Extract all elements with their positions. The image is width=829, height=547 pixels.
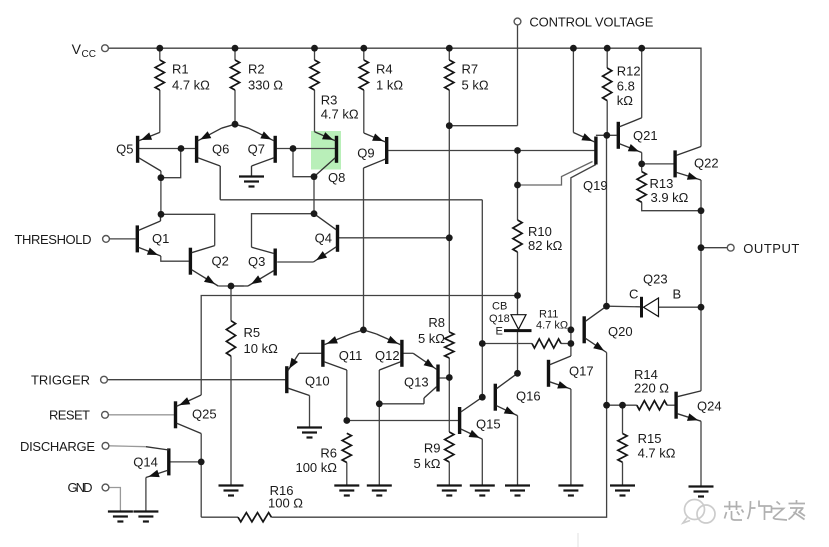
- ground under R6: [334, 486, 359, 496]
- wire Q14 base to Q25 emitter node: [170, 461, 201, 463]
- terminal TRIGGER: [31, 373, 107, 388]
- svg-text:R8: R8: [428, 315, 445, 330]
- wire Q6 collector column down R11/Q15 node: [481, 200, 483, 397]
- transistor Q19: [573, 133, 607, 194]
- wire Q1 node to Q2 collector: [161, 214, 215, 245]
- wire Q4 node to Q3 collector: [252, 214, 315, 248]
- terminal VCC: [72, 41, 109, 60]
- svg-text:R5: R5: [244, 325, 261, 340]
- terminal RESET: [49, 408, 108, 423]
- wire Q14 emitter to ground: [145, 478, 147, 512]
- wire Q10 collector to ground: [309, 396, 311, 428]
- wire R6 node row to Q15 base: [347, 420, 458, 422]
- wire R1 top column: [159, 48, 161, 60]
- ground under Q24: [689, 487, 714, 497]
- svg-text:5 kΩ: 5 kΩ: [413, 456, 440, 471]
- svg-text:220 Ω: 220 Ω: [634, 381, 669, 396]
- svg-text:4.7 kΩ: 4.7 kΩ: [321, 107, 359, 122]
- resistor R7: [445, 60, 489, 93]
- terminal CONTROL VOLTAGE: [514, 15, 654, 30]
- ground at GND pin: [108, 512, 133, 522]
- wire R4 top column: [363, 48, 365, 60]
- wire Q20 collector node to Q23 cathode: [607, 305, 641, 308]
- wire Q24 emitter to ground: [700, 421, 702, 486]
- svg-text:Q19: Q19: [583, 178, 608, 193]
- transistor Q14: [133, 447, 169, 478]
- svg-text:Q12: Q12: [375, 348, 400, 363]
- wire R5 column top: [230, 286, 232, 321]
- svg-text:Q13: Q13: [404, 375, 429, 390]
- wire Q23 anode to output column: [659, 306, 702, 308]
- terminal DISCHARGE: [20, 439, 109, 454]
- wire R14 to Q24 base: [667, 404, 675, 406]
- resistor R12: [603, 64, 641, 109]
- wire control voltage to R7 junction: [449, 125, 517, 127]
- svg-text:Q15: Q15: [476, 417, 501, 432]
- transistor Q24: [676, 391, 721, 421]
- transistor Q2: [190, 246, 228, 286]
- svg-text:Q16: Q16: [516, 389, 541, 404]
- wire R8 to Q13 base node: [448, 358, 450, 378]
- svg-text:B: B: [673, 287, 682, 302]
- svg-text:Q17: Q17: [569, 364, 594, 379]
- transistor Q5: [116, 132, 161, 171]
- wire R7 top column: [448, 48, 450, 60]
- svg-text:OUTPUT: OUTPUT: [743, 241, 799, 256]
- transistor Q15: [460, 397, 501, 439]
- transistor Q7: [235, 124, 275, 176]
- svg-text:Q21: Q21: [633, 128, 658, 143]
- wire R13 bottom to output column: [642, 202, 701, 210]
- wire Q1 emitter to Q2 base: [161, 256, 189, 261]
- wire R12 bottom to Q21 base: [606, 101, 608, 136]
- wire R2 bottom to Q6/Q7 apex: [234, 90, 236, 124]
- ground under Q16: [505, 486, 530, 496]
- watermark logo: [683, 500, 715, 524]
- wire Q25 emitter column: [200, 434, 202, 518]
- wire Q12/Q13 collectors to ground: [379, 404, 424, 486]
- wire discharge stub: [109, 445, 146, 448]
- wire R7 bottom column to R8: [448, 90, 450, 332]
- svg-text:82 kΩ: 82 kΩ: [528, 238, 563, 253]
- transistor Q21: [618, 118, 657, 153]
- wire Q19 emitter column: [572, 48, 574, 132]
- transistor Q1: [137, 214, 169, 256]
- svg-text:Q14: Q14: [133, 455, 158, 470]
- svg-text:4.7 kΩ: 4.7 kΩ: [536, 320, 568, 332]
- wire R4 bottom to Q9 emitter: [363, 90, 365, 133]
- svg-text:Q9: Q9: [357, 146, 374, 161]
- ground under Q15: [470, 486, 495, 496]
- wire Q5 collector to Q1 node: [160, 171, 162, 214]
- svg-text:E: E: [496, 326, 503, 338]
- diode Q23: [629, 272, 681, 318]
- wire R6 to ground: [346, 463, 348, 486]
- wire Q10 emitter to Q11 base: [299, 352, 321, 354]
- wire Vcc rail: [108, 48, 701, 146]
- wire Q17 emitter to ground: [570, 389, 572, 486]
- transistor Q9: [357, 133, 386, 168]
- wire Q3 base to Q4 emitter: [277, 261, 313, 263]
- resistor R16: [238, 483, 303, 522]
- resistor R9: [413, 432, 453, 471]
- svg-text:R4: R4: [376, 62, 393, 77]
- svg-text:C: C: [629, 287, 638, 302]
- svg-text:Q18: Q18: [489, 313, 510, 325]
- svg-text:4.7 kΩ: 4.7 kΩ: [172, 78, 210, 93]
- wire Q8 diode connection: [293, 149, 314, 177]
- highlight box on Q8: [311, 131, 341, 170]
- svg-text:Q6: Q6: [212, 142, 229, 157]
- transistor Q22: [675, 147, 718, 181]
- resistor R3: [310, 60, 359, 122]
- resistor R6: [295, 433, 351, 475]
- wire Q21 node to Q22 base: [642, 163, 674, 165]
- transistor Q13: [404, 353, 449, 404]
- ground under Q17: [558, 486, 583, 496]
- resistor R10: [513, 220, 563, 253]
- wire output stub: [701, 247, 727, 249]
- svg-text:Q23: Q23: [643, 272, 668, 287]
- svg-text:GND: GND: [68, 480, 93, 495]
- svg-text:Q5: Q5: [116, 142, 133, 157]
- ground under Q14: [133, 512, 158, 522]
- transistor Q4: [313, 214, 337, 262]
- wire Q5 base junction to Q6: [139, 148, 195, 150]
- wire Q5 diode connection: [161, 149, 181, 178]
- svg-text:R9: R9: [424, 441, 441, 456]
- svg-text:5 kΩ: 5 kΩ: [418, 331, 445, 346]
- wire control-voltage column lower: [517, 151, 519, 221]
- svg-text:THRESHOLD: THRESHOLD: [15, 232, 92, 247]
- wire Q2/Q3 emitters to R5: [218, 285, 244, 287]
- svg-text:6.8: 6.8: [617, 79, 635, 94]
- wire gnd stub: [109, 488, 121, 512]
- wire Q12 base to Q13 emitter: [403, 352, 413, 354]
- wire Q12 collector: [378, 370, 380, 404]
- svg-text:R1: R1: [172, 62, 189, 77]
- svg-text:R12: R12: [617, 64, 641, 79]
- wire Q20 collector column to Q21 base node: [606, 135, 608, 306]
- wire R13 top: [641, 164, 643, 172]
- wire Q9 base / control node / Q19 base row: [388, 150, 594, 152]
- svg-text:Q10: Q10: [305, 374, 330, 389]
- svg-text:100 Ω: 100 Ω: [268, 496, 303, 511]
- transistor Q16: [495, 373, 540, 415]
- svg-text:R10: R10: [528, 224, 552, 239]
- wire Q17 collector to node: [570, 344, 572, 357]
- svg-text:Q7: Q7: [248, 142, 265, 157]
- svg-text:kΩ: kΩ: [617, 93, 634, 108]
- wire Q15 emitter to ground: [481, 439, 483, 485]
- wire R1 bottom to Q5 emitter: [159, 90, 161, 132]
- svg-text:TRIGGER: TRIGGER: [31, 373, 90, 388]
- svg-text:R3: R3: [321, 93, 338, 108]
- svg-text:R7: R7: [462, 62, 479, 77]
- wire reset stub: [108, 414, 174, 416]
- wire R15 top: [622, 405, 624, 433]
- resistor R11: [532, 309, 568, 349]
- wire Q20 emitter column: [606, 353, 608, 406]
- wire R12 top column: [606, 48, 608, 68]
- wire Q6 collector row: [220, 199, 482, 201]
- svg-text:1 kΩ: 1 kΩ: [376, 78, 403, 93]
- wire Q20 base node to R11 node: [570, 330, 572, 344]
- resistor R15: [618, 431, 676, 462]
- terminal THRESHOLD: [15, 232, 136, 247]
- wire Q11 collector to R6 node: [346, 370, 348, 421]
- resistor R2: [230, 60, 283, 93]
- wire R3 bottom to Q8 emitter: [314, 90, 316, 132]
- terminal GND: [68, 480, 109, 495]
- transistor Q10: [287, 353, 330, 395]
- wire R10 to Q18 anode: [517, 252, 519, 315]
- svg-text:Q24: Q24: [697, 399, 722, 414]
- svg-text:R2: R2: [248, 62, 265, 77]
- resistor R14: [634, 367, 669, 410]
- wire R9 to ground: [448, 462, 450, 486]
- wire Q13 base node to R9: [448, 378, 450, 433]
- wire Q21 emitter to node: [641, 153, 643, 164]
- wire trigger row: [107, 379, 285, 381]
- svg-text:DISCHARGE: DISCHARGE: [20, 439, 95, 454]
- ground under R15: [610, 486, 635, 496]
- svg-text:Q20: Q20: [608, 324, 633, 339]
- transistor Q20: [584, 306, 632, 352]
- wire output column Q22 emitter to Q24 collector: [700, 180, 702, 391]
- ground under R9: [437, 486, 462, 496]
- svg-text:Q25: Q25: [192, 407, 217, 422]
- svg-text:4.7 kΩ: 4.7 kΩ: [638, 446, 676, 461]
- page artifact line: [577, 533, 579, 547]
- svg-text:3.9 kΩ: 3.9 kΩ: [651, 190, 689, 205]
- resistor R5: [226, 321, 278, 356]
- transistor Q17: [549, 356, 594, 389]
- transistor Q8: [314, 132, 345, 185]
- svg-text:Q4: Q4: [315, 231, 332, 246]
- wire R11 right to node: [561, 343, 571, 345]
- wire R16 to Q20 emitter column: [271, 405, 606, 517]
- transistor Q12: [363, 330, 402, 370]
- wire bottom row to R16: [201, 516, 238, 518]
- wire Q19 second collector lead to Q20 base: [571, 165, 596, 330]
- resistor R8: [418, 315, 454, 358]
- svg-text:RESET: RESET: [49, 408, 90, 423]
- wire Q16 emitter to ground: [517, 416, 519, 486]
- transistor Q3: [231, 247, 275, 286]
- svg-text:CB: CB: [492, 301, 507, 313]
- svg-text:330 Ω: 330 Ω: [248, 78, 283, 93]
- wire R5 to ground: [230, 356, 232, 485]
- svg-text:10 kΩ: 10 kΩ: [244, 341, 279, 356]
- svg-text:CC: CC: [82, 49, 96, 60]
- svg-text:R15: R15: [638, 431, 662, 446]
- svg-text:Q22: Q22: [694, 156, 719, 171]
- wire control-voltage column upper: [517, 25, 519, 126]
- svg-text:R6: R6: [320, 446, 337, 461]
- wire R15 to ground: [622, 462, 624, 485]
- ground under Q10: [297, 428, 322, 438]
- svg-text:Q2: Q2: [212, 254, 229, 269]
- terminal OUTPUT: [727, 241, 799, 256]
- ground under Q12/Q13: [367, 486, 392, 496]
- resistor R13: [637, 172, 689, 205]
- transistor Q25: [176, 395, 217, 434]
- ground under Q7: [239, 177, 264, 187]
- svg-text:V: V: [72, 41, 82, 57]
- wire reset row from Q25 collector: [201, 296, 517, 396]
- wire Q21 collector to Vcc: [641, 48, 643, 118]
- svg-text:100 kΩ: 100 kΩ: [295, 460, 337, 475]
- resistor R4: [359, 60, 403, 93]
- wire Q20 emitter node to R15/R14: [607, 404, 637, 406]
- transistor Q11: [323, 330, 364, 370]
- resistor R1: [155, 60, 210, 93]
- wire Q8 collector to Q4 collector node: [313, 177, 315, 214]
- wire Q18 cathode to Q17 base node: [517, 331, 519, 374]
- wire Q19 collector lead to control node: [518, 162, 593, 186]
- wire Q7 base to Q8: [277, 148, 336, 150]
- wire R2 top column: [234, 48, 236, 60]
- svg-text:Q8: Q8: [328, 170, 345, 185]
- wire Q9 collector column: [363, 168, 365, 330]
- svg-text:Q11: Q11: [339, 348, 363, 363]
- svg-text:Q1: Q1: [152, 231, 169, 246]
- wire R3 top column: [314, 48, 316, 60]
- svg-text:CONTROL VOLTAGE: CONTROL VOLTAGE: [529, 15, 653, 30]
- wire R11 row left of resistor: [482, 343, 532, 345]
- svg-text:Q3: Q3: [248, 254, 265, 269]
- ground under R5: [219, 486, 244, 496]
- wire Q4 base row to R7 column: [339, 237, 449, 239]
- wire Q19 top to Q21 base: [596, 134, 617, 136]
- watermark text: [724, 500, 805, 520]
- svg-text:5 kΩ: 5 kΩ: [462, 78, 489, 93]
- svg-text:R13: R13: [650, 176, 674, 191]
- transistor Q6: [197, 124, 235, 200]
- diode Q18: [489, 301, 532, 338]
